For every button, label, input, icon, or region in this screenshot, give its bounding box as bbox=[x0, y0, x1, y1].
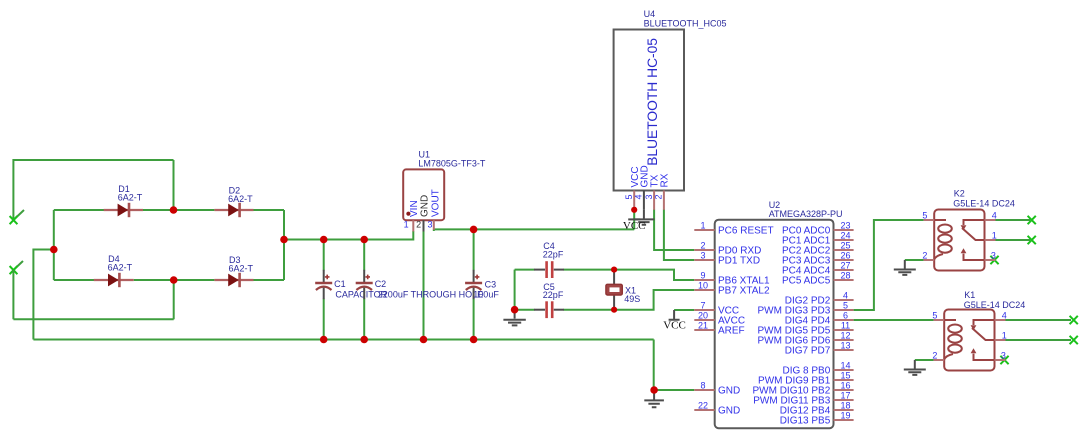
capacitor C1 bbox=[315, 270, 387, 300]
node X K2 pin3 bbox=[990, 256, 998, 264]
svg-text:GND: GND bbox=[420, 195, 431, 217]
power VCC at U2 pin7 bbox=[663, 310, 686, 332]
svg-text:C2: C2 bbox=[375, 279, 387, 289]
diode D3 bbox=[214, 255, 253, 287]
svg-text:5: 5 bbox=[843, 300, 848, 310]
svg-text:1: 1 bbox=[700, 220, 705, 230]
wire AC1 diagonal stub bbox=[13, 210, 24, 220]
svg-text:2: 2 bbox=[654, 194, 664, 199]
capacitor C2 bbox=[356, 270, 483, 300]
wire C3 top lead bbox=[473, 229, 475, 270]
wire bridge top row segments bbox=[54, 209, 284, 211]
svg-text:16: 16 bbox=[840, 380, 850, 390]
wire AC1 drop to bridge top bbox=[173, 160, 175, 210]
wire K1 contact pin1 bbox=[1006, 339, 1072, 341]
U2 left pin numbers bbox=[698, 220, 708, 410]
diode D4 bbox=[94, 254, 134, 287]
svg-text:9: 9 bbox=[700, 270, 705, 280]
svg-text:K2: K2 bbox=[954, 188, 965, 198]
node X K1 pin3 bbox=[1000, 356, 1008, 364]
svg-text:12: 12 bbox=[840, 330, 850, 340]
wire C3 bottom lead bbox=[473, 299, 475, 340]
crystal X1 bbox=[606, 270, 640, 310]
svg-text:4: 4 bbox=[992, 210, 997, 220]
capacitor C3 bbox=[465, 270, 499, 300]
wire bridge right vertical bbox=[283, 210, 285, 280]
svg-text:8: 8 bbox=[700, 380, 705, 390]
svg-text:1: 1 bbox=[404, 220, 409, 230]
svg-text:10: 10 bbox=[698, 280, 708, 290]
svg-text:22: 22 bbox=[698, 400, 708, 410]
U2 left pin stubs bbox=[694, 230, 714, 410]
junction bridge top bbox=[170, 206, 178, 214]
ground at XTAL caps bbox=[503, 310, 525, 326]
IC U2 ATMEGA328P-PU bbox=[715, 200, 843, 428]
capacitor C5 bbox=[534, 282, 564, 318]
svg-text:3: 3 bbox=[1001, 350, 1006, 360]
svg-text:BLUETOOTH_HC05: BLUETOOTH_HC05 bbox=[644, 18, 727, 28]
svg-text:24: 24 bbox=[840, 230, 850, 240]
ground at U2 pin8 bbox=[644, 390, 664, 407]
wire K1 coil ground bbox=[915, 359, 934, 361]
svg-text:C1: C1 bbox=[334, 279, 346, 289]
wire AC2 rise to bridge bottom bbox=[173, 280, 175, 319]
node X K1 pin1 bbox=[1070, 336, 1078, 344]
wire VCC to U2 pin7 bbox=[674, 309, 694, 311]
svg-text:4: 4 bbox=[843, 290, 848, 300]
wire DC minus to ground bus bbox=[33, 250, 53, 340]
junction C2 bottom bbox=[360, 336, 368, 344]
svg-text:6: 6 bbox=[843, 310, 848, 320]
K1 contact common blade bbox=[972, 328, 995, 340]
ground at K1 coil bbox=[904, 360, 926, 375]
wire AC2 bottom horizontal bbox=[13, 318, 173, 320]
svg-text:1: 1 bbox=[992, 230, 997, 240]
svg-text:6A2-T: 6A2-T bbox=[229, 264, 254, 274]
K2 contact pin3 arm bbox=[964, 254, 985, 260]
junction U4 VCC bbox=[631, 207, 637, 213]
svg-text:4: 4 bbox=[1002, 310, 1007, 320]
module U4 BLUETOOTH_HC05 bbox=[614, 9, 727, 210]
wire K2 contact pin4 bbox=[996, 219, 1031, 221]
wire XTAL cap ground vertical bbox=[514, 270, 516, 310]
svg-text:VCC: VCC bbox=[623, 220, 646, 232]
K1 pin stubs bbox=[934, 320, 1006, 360]
svg-text:11: 11 bbox=[841, 320, 850, 330]
svg-text:5: 5 bbox=[922, 210, 927, 220]
svg-text:49S: 49S bbox=[624, 294, 640, 304]
wire C1 top lead bbox=[323, 240, 325, 271]
svg-text:17: 17 bbox=[840, 390, 850, 400]
wire C2 bottom lead bbox=[363, 299, 365, 340]
capacitor C4 bbox=[534, 241, 564, 278]
node AC1 unconnected X bbox=[10, 216, 18, 224]
svg-text:27: 27 bbox=[840, 260, 850, 270]
wire K2 coil ground bbox=[905, 259, 924, 261]
junction C2 top bbox=[360, 236, 368, 244]
wire AC1 left vertical bbox=[12, 159, 14, 220]
svg-text:ATMEGA328P-PU: ATMEGA328P-PU bbox=[769, 209, 843, 219]
wire U2 PD4 to K1 coil bbox=[854, 319, 934, 321]
svg-text:6A2-T: 6A2-T bbox=[228, 194, 253, 204]
junction bridge right bbox=[280, 236, 288, 244]
junction U1 GND bus bbox=[420, 336, 428, 344]
svg-text:19: 19 bbox=[840, 410, 850, 420]
node X K2 pin1 bbox=[1028, 236, 1036, 244]
svg-text:BLUETOOTH HC-05: BLUETOOTH HC-05 bbox=[645, 38, 660, 166]
ground under U4 GND pin bbox=[633, 210, 654, 225]
wire bridge left vertical bbox=[53, 210, 55, 280]
svg-text:AREF: AREF bbox=[718, 326, 745, 337]
junction X1 top bbox=[611, 267, 617, 273]
K2 pin stubs bbox=[924, 220, 996, 260]
svg-text:DIG13 PB5: DIG13 PB5 bbox=[780, 416, 831, 427]
svg-text:22pF: 22pF bbox=[543, 250, 564, 260]
svg-text:G5LE-14 DC24: G5LE-14 DC24 bbox=[953, 198, 1015, 208]
svg-text:5: 5 bbox=[932, 310, 937, 320]
wire C1 bottom lead bbox=[323, 299, 325, 340]
svg-text:21: 21 bbox=[698, 320, 708, 330]
wire U4 TX to U2 RXD bbox=[654, 210, 694, 251]
svg-text:2: 2 bbox=[416, 220, 421, 230]
svg-text:3: 3 bbox=[427, 220, 432, 230]
svg-text:1: 1 bbox=[1002, 330, 1007, 340]
U2 right pin stubs bbox=[834, 230, 854, 420]
node AC2 unconnected X bbox=[10, 266, 18, 274]
svg-text:2: 2 bbox=[932, 350, 937, 360]
svg-text:RX: RX bbox=[660, 173, 671, 187]
wire AC2 diagonal stub bbox=[13, 261, 23, 270]
junction bridge left bbox=[50, 246, 58, 254]
K2 contact common blade bbox=[962, 228, 985, 240]
svg-text:PD1 TXD: PD1 TXD bbox=[718, 256, 760, 267]
junction XTAL ground bbox=[511, 306, 519, 314]
U2 right pin names bbox=[752, 226, 830, 427]
wire ground bus drop to U2 GND bbox=[654, 340, 695, 391]
wire XTAL2 row bbox=[515, 290, 695, 310]
K2 contact pin4 arm bbox=[964, 220, 985, 225]
svg-text:VCC: VCC bbox=[663, 320, 686, 332]
svg-text:PB7 XTAL2: PB7 XTAL2 bbox=[718, 286, 770, 297]
relay K2 G5LE-14 DC24 bbox=[922, 188, 1014, 270]
svg-text:PC6 RESET: PC6 RESET bbox=[718, 226, 774, 237]
wire ground bus horizontal bbox=[33, 339, 653, 341]
diode D1 bbox=[104, 184, 143, 217]
K2 coil bbox=[934, 220, 952, 260]
junction C3 bottom bbox=[470, 336, 478, 344]
svg-text:3: 3 bbox=[644, 194, 654, 199]
svg-text:G5LE-14 DC24: G5LE-14 DC24 bbox=[964, 300, 1026, 310]
svg-text:20: 20 bbox=[698, 310, 708, 320]
svg-text:6A2-T: 6A2-T bbox=[118, 193, 143, 203]
svg-text:GND: GND bbox=[718, 386, 740, 397]
svg-text:3: 3 bbox=[700, 250, 705, 260]
svg-text:LM7805G-TF3-T: LM7805G-TF3-T bbox=[418, 159, 486, 169]
wire K1 contact pin4 bbox=[1006, 319, 1072, 321]
wire bridge bottom row segments bbox=[54, 279, 284, 281]
svg-text:26: 26 bbox=[840, 250, 850, 260]
ground at K2 coil bbox=[894, 260, 916, 275]
relay K1 G5LE-14 DC24 bbox=[932, 290, 1025, 371]
svg-text:DIG7 PD7: DIG7 PD7 bbox=[785, 346, 831, 357]
svg-text:22pF: 22pF bbox=[543, 290, 564, 300]
svg-text:3: 3 bbox=[991, 250, 996, 260]
svg-text:2: 2 bbox=[700, 240, 705, 250]
svg-text:4: 4 bbox=[634, 194, 644, 199]
svg-text:2: 2 bbox=[922, 250, 927, 260]
regulator U1 LM7805 bbox=[403, 150, 486, 232]
svg-text:7: 7 bbox=[700, 300, 705, 310]
svg-text:18: 18 bbox=[840, 400, 850, 410]
K1 contact pin3 arm bbox=[974, 354, 995, 360]
svg-text:23: 23 bbox=[840, 220, 850, 230]
wire C2 top lead bbox=[363, 240, 365, 271]
wire DC plus bus bbox=[284, 231, 413, 240]
svg-text:13: 13 bbox=[840, 340, 850, 350]
wire K2 contact pin1 bbox=[996, 239, 1031, 241]
svg-text:28: 28 bbox=[840, 270, 850, 280]
junction C1 bottom bbox=[320, 336, 328, 344]
svg-text:25: 25 bbox=[840, 240, 850, 250]
K1 coil bbox=[944, 320, 962, 360]
wire U2 PD3 to K2 coil bbox=[854, 220, 924, 310]
svg-text:VIN: VIN bbox=[409, 200, 420, 217]
svg-text:15: 15 bbox=[840, 370, 850, 380]
wire AC1 top horizontal bbox=[13, 159, 173, 161]
junction C3 top bbox=[470, 226, 478, 234]
svg-text:14: 14 bbox=[840, 360, 850, 370]
wire XTAL1 row bbox=[515, 270, 695, 280]
wire U4 RX to U2 TXD bbox=[664, 210, 694, 261]
U2 right pin numbers bbox=[840, 220, 850, 420]
svg-text:GND: GND bbox=[718, 406, 740, 417]
wire U1 GND down bbox=[423, 231, 425, 340]
node X K2 pin4 bbox=[1028, 216, 1036, 224]
wire AC2 left vertical bbox=[12, 270, 14, 319]
wire 5V rail VOUT to U4 bbox=[434, 210, 634, 231]
junction C1 top bbox=[320, 236, 328, 244]
U2 left pin names bbox=[718, 226, 774, 417]
svg-text:VOUT: VOUT bbox=[430, 189, 441, 217]
junction bridge bottom bbox=[170, 276, 178, 284]
K1 contact pin4 arm bbox=[974, 320, 995, 325]
diode D2 bbox=[214, 186, 253, 218]
svg-text:2200uF THROUGH HOLE: 2200uF THROUGH HOLE bbox=[378, 289, 483, 299]
svg-text:6A2-T: 6A2-T bbox=[108, 263, 133, 273]
svg-text:PC5 ADC5: PC5 ADC5 bbox=[782, 276, 831, 287]
junction X1 bottom bbox=[611, 307, 617, 313]
svg-text:C3: C3 bbox=[485, 279, 497, 289]
svg-text:100uF: 100uF bbox=[473, 289, 499, 299]
junction U2 GND bbox=[650, 386, 658, 394]
power VCC at U4 pin5 bbox=[623, 219, 646, 231]
svg-text:K1: K1 bbox=[964, 290, 975, 300]
node X K1 pin4 bbox=[1070, 316, 1078, 324]
svg-text:U4: U4 bbox=[644, 9, 656, 19]
svg-text:5: 5 bbox=[624, 194, 634, 199]
